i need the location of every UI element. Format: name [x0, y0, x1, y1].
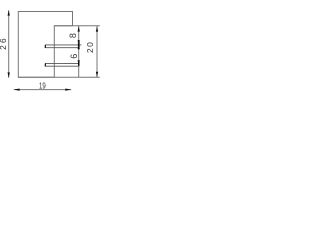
- svg-text:26: 26: [0, 36, 8, 50]
- extension line top (step level): [54, 25, 100, 27]
- body outline: [18, 12, 72, 78]
- dim 26 down arrow: [8, 72, 10, 77]
- dim 19 line: [14, 89, 71, 91]
- pin 2 bottom line: [45, 65, 80, 67]
- pin 1 end cap: [45, 45, 46, 48]
- pin 1 top line: [45, 44, 82, 46]
- pin 2 top line: [45, 62, 80, 64]
- dim 8 up arrow: [78, 26, 80, 31]
- svg-text:8: 8: [68, 33, 78, 38]
- dim chain line (8 and 6): [78, 26, 80, 77]
- extension line bottom: [18, 76, 100, 78]
- svg-text:19: 19: [39, 80, 46, 90]
- dim 20 down arrow: [96, 72, 98, 77]
- pin 2 end cap: [45, 64, 46, 67]
- dim 20 line: [96, 26, 98, 77]
- dim 19 right arrow: [65, 88, 71, 90]
- dim 8 down arrow: [78, 40, 80, 45]
- dim 26 line: [8, 10, 10, 78]
- dim 6 down arrow: [78, 60, 80, 65]
- dim 19 left arrow: [14, 88, 20, 90]
- dim 6 up arrow: [78, 44, 80, 49]
- svg-text:6: 6: [69, 54, 79, 59]
- svg-text:20: 20: [85, 41, 95, 53]
- dim 26 up arrow: [8, 10, 10, 15]
- dim 20 up arrow: [96, 26, 98, 31]
- pin 1 bottom line: [45, 47, 80, 49]
